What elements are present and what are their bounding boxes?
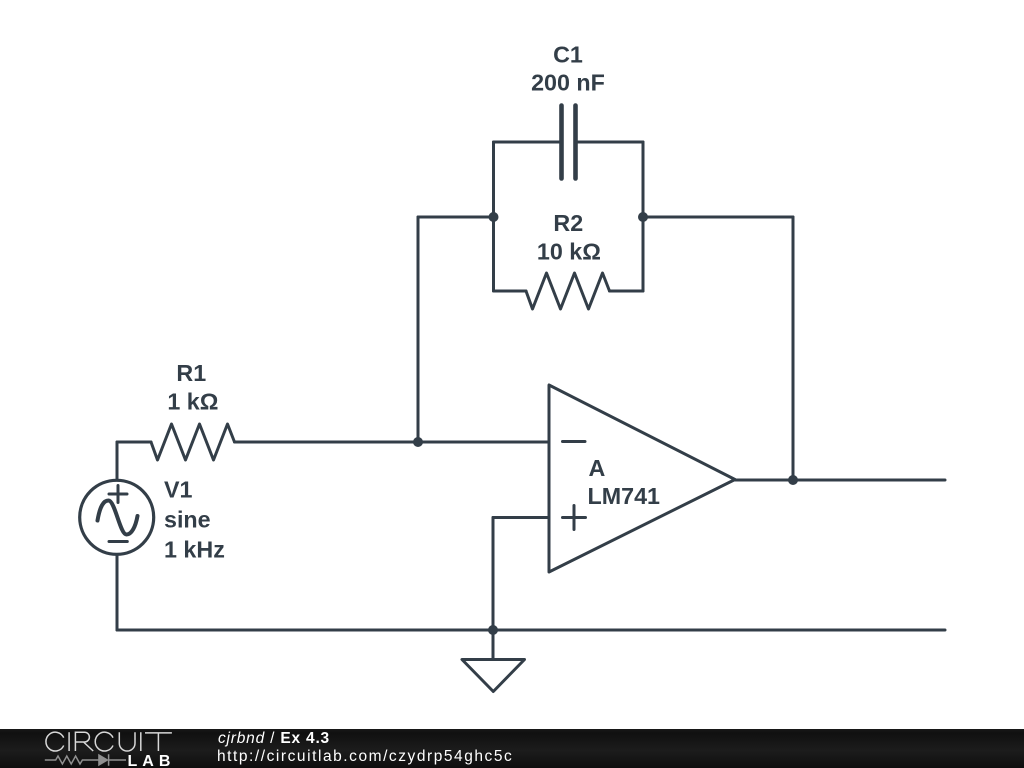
logo letter R [75, 732, 93, 751]
svg-text:V1: V1 [164, 477, 193, 503]
footer title [218, 730, 330, 748]
voltage source V1 [80, 480, 154, 554]
ground [462, 630, 525, 692]
V1 minus mark [109, 540, 127, 543]
op-amp U1 triangle [549, 385, 735, 572]
logo letter U [119, 732, 135, 751]
op-amp U1 inverting input mark [563, 440, 586, 443]
node feedback left junction [489, 212, 499, 222]
logo resistor-diode glyph [45, 754, 126, 766]
wire box top-left to C1 [494, 141, 562, 144]
wire non-inverting input horizontal [493, 516, 549, 519]
svg-text:1 kΩ: 1 kΩ [167, 389, 218, 415]
svg-text:sine: sine [164, 506, 211, 532]
node output junction [788, 475, 798, 485]
resistor R1 [151, 424, 235, 460]
wire non-inverting input vertical to ground node [492, 518, 495, 631]
wire feedback box right vertical [642, 142, 645, 291]
wire node A up to feedback [417, 217, 420, 442]
node feedback right junction [638, 212, 648, 222]
resistor R2 [526, 273, 610, 309]
wire V1 top lead [116, 442, 119, 480]
svg-text:LM741: LM741 [588, 483, 661, 509]
wire bottom rail [117, 629, 945, 632]
svg-text:R2: R2 [553, 210, 583, 236]
V1 plus mark [109, 486, 127, 503]
svg-text:1 kHz: 1 kHz [164, 537, 225, 563]
wire C1 to box top-right [576, 141, 644, 144]
wire feedback box left vertical [492, 142, 495, 291]
wire feedback right vertical to output [792, 217, 795, 480]
CircuitLab logo wordmark [0, 729, 200, 768]
wire to feedback box left node [418, 216, 494, 219]
wire feedback right horizontal [643, 216, 793, 219]
wire R1 to node A [235, 441, 419, 444]
node A junction [413, 437, 423, 447]
V1 sine glyph [98, 501, 138, 535]
logo diode triangle [99, 755, 108, 765]
svg-text:C1: C1 [553, 42, 583, 68]
node ground junction [488, 625, 498, 635]
wire V1 to R1 [117, 441, 151, 444]
logo letter T [145, 733, 172, 751]
wire R2 to box bottom-right [610, 290, 644, 293]
wire node A to op-amp inverting input [418, 441, 549, 444]
wire V1 bottom lead [116, 555, 119, 630]
capacitor C1 [559, 106, 564, 179]
svg-text:R1: R1 [176, 360, 206, 386]
op-amp U1 non-inverting input mark [563, 506, 586, 530]
wire box bottom-left to R2 [494, 290, 527, 293]
logo letter C [95, 732, 113, 751]
footer url [217, 748, 513, 766]
svg-text:200 nF: 200 nF [531, 70, 605, 96]
logo letter C [46, 732, 64, 751]
svg-text:A: A [589, 455, 606, 481]
logo letter I [68, 732, 70, 751]
svg-text:LAB: LAB [128, 753, 176, 768]
wire op-amp output [735, 479, 945, 482]
logo letter I [140, 732, 142, 751]
svg-text:10 kΩ: 10 kΩ [537, 239, 601, 265]
